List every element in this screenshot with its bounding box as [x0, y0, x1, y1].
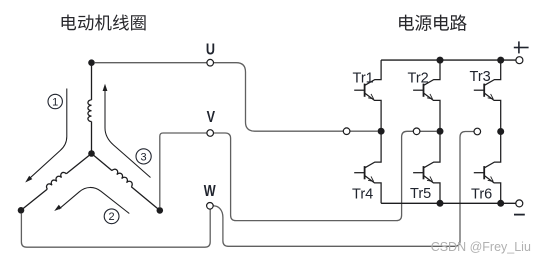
- svg-text:3: 3: [141, 151, 147, 163]
- transistor Q5 (Tr5): [413, 131, 440, 203]
- svg-text:Tr4: Tr4: [352, 186, 373, 202]
- svg-text:2: 2: [109, 211, 115, 223]
- svg-text:1: 1: [52, 96, 58, 108]
- arrow 3 (current direction, vertical winding): [105, 89, 151, 178]
- wire: negative DC rail (bottom): [381, 202, 516, 204]
- terminal W (open circle): [207, 203, 214, 210]
- transistor Q6 (Tr6): [474, 131, 501, 203]
- wire U: top node to terminal U to bridge leg 1: [95, 63, 378, 132]
- title: motor coil (电动机线圈): [62, 14, 146, 30]
- label: circled number 1: [48, 94, 62, 108]
- label +: [514, 41, 529, 53]
- svg-text:Tr5: Tr5: [410, 186, 431, 202]
- wire W: left winding end to terminal W to bridge leg 3: [21, 132, 474, 248]
- title: power supply circuit (电源电路): [399, 15, 467, 31]
- node: star point junction: [88, 150, 95, 157]
- transistor Q3 (Tr3): [474, 60, 501, 131]
- label -: [514, 214, 525, 216]
- svg-text:Tr6: Tr6: [471, 187, 492, 203]
- svg-text:Tr3: Tr3: [470, 69, 491, 85]
- node: phase V midpoint: [437, 128, 444, 135]
- node: right winding end: [157, 207, 164, 214]
- terminal V (open circle): [207, 130, 214, 137]
- node: top rail Tr3 collector: [497, 57, 504, 64]
- terminal + (positive DC): [516, 57, 523, 64]
- transistor Q1 (Tr1): [354, 60, 381, 131]
- wire: positive DC rail (top): [381, 59, 516, 61]
- label U: [206, 41, 215, 59]
- wire V: right winding end to terminal V to bridge leg 2: [160, 131, 437, 220]
- svg-text:V: V: [207, 109, 216, 127]
- node: bottom rail Tr5 emitter: [437, 200, 444, 207]
- connector circle leg 1: [343, 128, 350, 135]
- label: circled number 2: [104, 209, 119, 224]
- terminal U (open circle): [207, 59, 214, 66]
- svg-text:W: W: [204, 183, 216, 201]
- label V: [207, 109, 216, 127]
- arrow 1 (current direction, left winding): [30, 89, 67, 179]
- label W: [204, 183, 216, 201]
- arrow 2 (current direction, bottom curved): [59, 187, 130, 213]
- connector circle leg 2: [413, 128, 420, 135]
- node: phase W midpoint: [497, 128, 504, 135]
- winding L3 (right arm phase V coil): [92, 154, 160, 211]
- node: phase U midpoint: [378, 128, 385, 135]
- winding L2 (left arm phase W coil): [21, 154, 92, 211]
- svg-text:Tr2: Tr2: [408, 71, 429, 87]
- terminal - (negative DC): [516, 200, 523, 207]
- svg-text:CSDN @Frey_Liu: CSDN @Frey_Liu: [431, 240, 531, 254]
- node: top rail Tr2 collector: [437, 57, 444, 64]
- transistor Q2 (Tr2): [413, 60, 440, 131]
- transistor Q4 (Tr4): [354, 131, 381, 203]
- node: top of vertical winding (U side): [88, 59, 95, 66]
- svg-text:Tr1: Tr1: [353, 70, 374, 86]
- winding L1 (vertical phase U coil): [88, 63, 92, 154]
- node: left winding end: [18, 207, 25, 214]
- svg-text:U: U: [206, 41, 215, 59]
- node: bottom rail Tr6 emitter: [497, 200, 504, 207]
- connector circle leg 3: [474, 128, 481, 135]
- label: circled number 3: [136, 149, 151, 164]
